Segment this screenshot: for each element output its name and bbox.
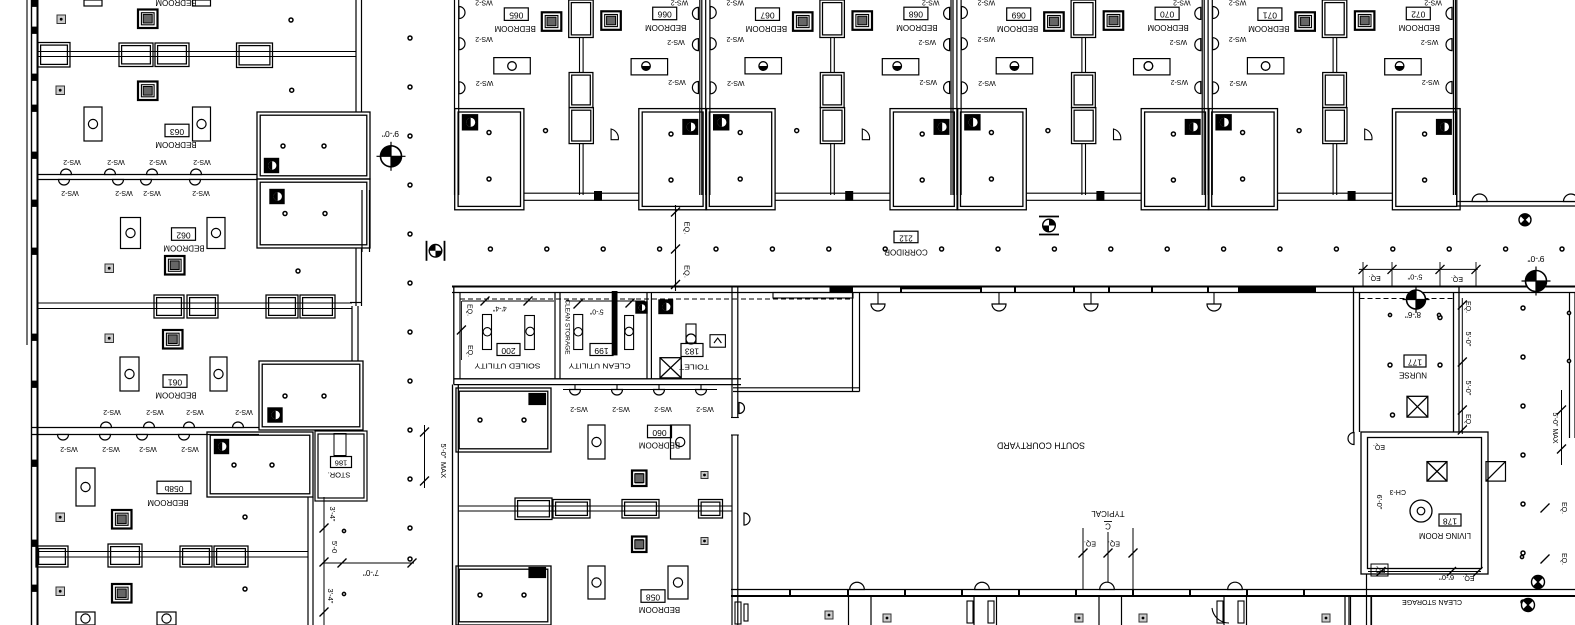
svg-text:CORRIDOR: CORRIDOR — [884, 247, 928, 256]
wall — [950, 0, 952, 195]
bedroom 058b — [112, 510, 132, 529]
closet — [119, 43, 153, 67]
svg-text:WS-2: WS-2 — [146, 408, 164, 415]
dresser 069 — [996, 58, 1033, 74]
svg-text:WS-2: WS-2 — [1424, 0, 1442, 6]
bathroom of 068 — [890, 109, 958, 210]
svg-text:WS-2: WS-2 — [671, 0, 689, 6]
room label 070 — [1155, 7, 1179, 20]
closet — [108, 544, 142, 567]
svg-text:WS-2: WS-2 — [60, 445, 78, 452]
svg-text:4'-4": 4'-4" — [492, 304, 506, 311]
svg-text:EQ.: EQ. — [1560, 502, 1567, 514]
svg-text:6'-0": 6'-0" — [1439, 573, 1454, 582]
symbol — [1519, 214, 1531, 226]
room label 072 — [1406, 7, 1430, 20]
closet row 060/058 — [458, 505, 732, 507]
svg-text:WS-2: WS-2 — [192, 189, 210, 196]
svg-text:EQ.: EQ. — [466, 345, 473, 357]
bathroom of 072 — [1392, 109, 1460, 210]
bathroom of 069 — [957, 109, 1026, 210]
svg-text:WS-2: WS-2 — [726, 35, 744, 42]
room label 066 — [653, 7, 677, 20]
compass target right — [1526, 271, 1547, 292]
bathroom of 071 — [1208, 109, 1277, 210]
bed 071 — [1295, 12, 1315, 31]
bathroom of 070 — [1141, 109, 1209, 210]
svg-text:WS-2: WS-2 — [193, 158, 211, 165]
svg-text:3'-4": 3'-4" — [326, 589, 335, 604]
dimension above nurse — [1359, 268, 1478, 270]
closet row wall between 058b and lower bedroom — [38, 551, 308, 553]
svg-text:BEDROOM: BEDROOM — [1398, 23, 1440, 32]
door frame — [1097, 192, 1104, 201]
room label 069 — [1007, 8, 1031, 21]
closet row wall between 062 and 061 — [38, 302, 352, 304]
svg-text:WS-2: WS-2 — [918, 38, 936, 45]
corridor label 212 — [894, 231, 918, 243]
svg-text:WS-2: WS-2 — [103, 408, 121, 415]
svg-text:BEDROOM: BEDROOM — [645, 23, 687, 32]
wall right of 072 — [1456, 0, 1458, 205]
svg-text:7'-0": 7'-0" — [363, 568, 379, 577]
door frame — [846, 192, 853, 201]
door — [1564, 194, 1575, 201]
room label 071 — [1258, 8, 1282, 21]
dark squares — [825, 611, 833, 619]
dresser 066 — [631, 59, 668, 75]
closet — [820, 108, 844, 144]
top row of bedroom unit pairs — [455, 0, 707, 210]
svg-text:EQ.: EQ. — [683, 222, 692, 235]
svg-text:BEDROOM: BEDROOM — [155, 390, 197, 399]
svg-text:060: 060 — [652, 428, 666, 438]
wall sconce WS-2 — [459, 7, 465, 19]
closet — [1072, 73, 1096, 108]
svg-text:SOILED UTILITY: SOILED UTILITY — [475, 362, 541, 371]
svg-text:WS-2: WS-2 — [476, 79, 494, 86]
svg-text:058: 058 — [646, 592, 660, 602]
wall between 199 and 183 — [646, 293, 648, 379]
svg-text:EQ.: EQ. — [1462, 574, 1474, 581]
bedroom (bottom, cut) — [112, 584, 132, 603]
dot — [795, 129, 799, 133]
wall — [1452, 0, 1454, 195]
dresser 065 — [494, 58, 531, 74]
wall — [956, 0, 958, 195]
door frame — [1348, 192, 1355, 201]
svg-text:TOILET: TOILET — [679, 362, 709, 371]
dimension 5-0 MAX right — [1561, 390, 1563, 465]
symbols bottom right — [1532, 576, 1545, 589]
svg-text:BEDROOM: BEDROOM — [147, 498, 189, 507]
svg-text:WS-2: WS-2 — [612, 405, 630, 412]
svg-text:068: 068 — [909, 10, 923, 20]
bathroom of 065 — [455, 109, 524, 210]
bathroom of 067 — [706, 109, 775, 210]
bathroom of 061 — [259, 361, 363, 430]
svg-text:WS-2: WS-2 — [1421, 38, 1439, 45]
svg-text:5'-0" MAX: 5'-0" MAX — [1551, 412, 1558, 443]
wall — [579, 144, 581, 195]
svg-text:EQ.: EQ. — [683, 265, 692, 278]
svg-text:WS-2: WS-2 — [1422, 78, 1440, 85]
bedroom (top, cut) — [138, 10, 158, 29]
wall sconce WS-2 — [1213, 7, 1219, 19]
wall — [454, 0, 456, 195]
closet — [180, 546, 212, 567]
left block right wall — [355, 0, 357, 112]
svg-text:6'-0": 6'-0" — [1375, 495, 1384, 510]
svg-text:WS-2: WS-2 — [570, 405, 588, 412]
wall — [1081, 144, 1083, 195]
nurse labels — [1404, 355, 1426, 367]
vestibule room — [852, 293, 854, 392]
dot — [1046, 129, 1050, 133]
corridor column dots — [432, 247, 436, 251]
svg-text:200: 200 — [501, 346, 515, 356]
svg-text:BEDROOM: BEDROOM — [155, 140, 197, 149]
living room labels — [1427, 462, 1447, 482]
svg-text:WS-2: WS-2 — [667, 38, 685, 45]
door frame — [595, 192, 602, 201]
door swing bottom right — [1212, 608, 1229, 623]
wall — [699, 0, 701, 195]
svg-text:WS-2: WS-2 — [654, 405, 672, 412]
svg-text:3'-4": 3'-4" — [328, 507, 337, 522]
svg-text:BEDROOM: BEDROOM — [896, 23, 938, 32]
svg-text:BEDROOM: BEDROOM — [1147, 23, 1189, 32]
svg-text:EQ.: EQ. — [1108, 540, 1120, 547]
doors at courtyard top — [877, 293, 879, 305]
closet — [187, 295, 218, 318]
svg-text:WS-2: WS-2 — [186, 408, 204, 415]
svg-text:WS-2: WS-2 — [475, 35, 493, 42]
svg-text:EQ.: EQ. — [1464, 301, 1471, 313]
bed 065 — [542, 12, 562, 31]
wall sconce WS-2 — [1195, 7, 1201, 19]
dot — [1297, 129, 1301, 133]
svg-text:WS-2: WS-2 — [696, 405, 714, 412]
compass target — [1407, 290, 1426, 309]
closet row wall — [38, 51, 356, 53]
closet — [1322, 0, 1347, 38]
thicker wall segment — [773, 293, 853, 299]
bathroom (upper pair top) — [257, 112, 370, 179]
door swing — [1365, 129, 1372, 140]
svg-text:WS-2: WS-2 — [181, 445, 199, 452]
wall corridor side — [775, 192, 890, 194]
wall top right of corridor — [1457, 201, 1575, 203]
svg-text:WS-2: WS-2 — [61, 189, 79, 196]
door posts — [735, 602, 741, 624]
svg-text:WS-2: WS-2 — [1229, 0, 1247, 6]
svg-text:CLEAN UTILITY: CLEAN UTILITY — [569, 362, 631, 371]
grid bubble — [1039, 217, 1059, 235]
svg-text:071: 071 — [1263, 10, 1277, 20]
utility block walls — [453, 287, 455, 385]
svg-text:199: 199 — [594, 346, 608, 356]
bedroom 062 — [165, 256, 185, 275]
wall — [830, 144, 832, 195]
svg-text:WS-2: WS-2 — [1229, 35, 1247, 42]
svg-text:5'-0": 5'-0" — [1464, 332, 1473, 347]
svg-text:5'-0: 5'-0 — [330, 541, 339, 553]
room label 067 — [756, 8, 780, 21]
svg-text:WS-2: WS-2 — [115, 189, 133, 196]
svg-text:BEDROOM: BEDROOM — [1248, 24, 1290, 33]
svg-text:BEDROOM: BEDROOM — [163, 243, 205, 252]
bathroom of 060 — [456, 388, 551, 452]
svg-text:BEDROOM: BEDROOM — [639, 605, 681, 614]
wall sconce WS-2 — [1213, 38, 1219, 50]
wall sconce WS-2 — [944, 82, 950, 94]
bathroom of 066 — [639, 109, 707, 210]
wall between 063 and 062 with sconces — [38, 174, 257, 176]
bathroom of 058 — [456, 566, 551, 625]
closet — [36, 546, 68, 567]
wall 058b block right — [307, 497, 309, 625]
svg-text:WS-2: WS-2 — [143, 189, 161, 196]
svg-text:178: 178 — [1443, 516, 1457, 526]
svg-text:EQ.: EQ. — [1369, 274, 1381, 281]
closet — [214, 546, 248, 567]
svg-text:BEDROOM: BEDROOM — [997, 24, 1039, 33]
svg-text:WS-2: WS-2 — [107, 158, 125, 165]
dresser circle variations — [759, 66, 768, 70]
svg-text:WS-2: WS-2 — [922, 0, 940, 6]
closet — [154, 295, 184, 318]
wall — [1332, 38, 1334, 73]
corridor 212 bottom wall — [452, 286, 1575, 288]
bed 070 — [1104, 11, 1124, 30]
closet — [237, 43, 273, 68]
svg-text:CLEAN STORAGE: CLEAN STORAGE — [1402, 598, 1462, 605]
svg-text:CH-3: CH-3 — [1390, 488, 1406, 495]
bed 069 — [1044, 12, 1064, 31]
dresser 072 — [1385, 59, 1422, 75]
toilet 183 — [659, 300, 673, 314]
bed 072 — [1355, 11, 1375, 30]
door swing — [1114, 129, 1121, 140]
svg-text:WS-2: WS-2 — [235, 408, 253, 415]
bedroom 063 — [138, 82, 158, 101]
wall between 061 and 058b with sconces — [32, 427, 260, 429]
svg-text:WS-2: WS-2 — [978, 0, 996, 6]
closet — [1071, 0, 1096, 38]
svg-text:061: 061 — [168, 377, 182, 387]
svg-text:EQ.: EQ. — [1373, 443, 1385, 450]
dresser 071 — [1247, 58, 1284, 74]
wall toilet right — [731, 287, 733, 625]
svg-text:065: 065 — [509, 10, 523, 20]
wall sconce WS-2 — [692, 7, 698, 19]
svg-text:WS-2: WS-2 — [1173, 0, 1191, 6]
wall sconce WS-2 — [1213, 82, 1219, 94]
bottom wing room dividers — [848, 596, 850, 625]
wall sconce WS-2 — [459, 38, 465, 50]
svg-text:WS-2: WS-2 — [978, 35, 996, 42]
closet — [1323, 73, 1347, 108]
svg-text:BEDROOM: BEDROOM — [745, 24, 787, 33]
dot — [544, 129, 548, 133]
wall — [1207, 0, 1209, 195]
wall — [1201, 0, 1203, 195]
wall sconce WS-2 — [459, 82, 465, 94]
dresser 067 — [745, 58, 782, 74]
svg-text:8'-6": 8'-6" — [1405, 310, 1421, 319]
living room 178 walls — [1361, 432, 1488, 574]
svg-text:062: 062 — [176, 230, 190, 240]
svg-text:EQ.: EQ. — [1464, 414, 1471, 426]
svg-text:WS-2: WS-2 — [139, 445, 157, 452]
svg-text:EQ.: EQ. — [1451, 275, 1463, 282]
svg-text:STOR.: STOR. — [328, 471, 351, 480]
closet — [1072, 108, 1096, 144]
nurse 177 walls — [1353, 287, 1355, 433]
wall — [579, 38, 581, 73]
wall jambs — [32, 0, 38, 7]
bed 068 — [853, 11, 873, 30]
wall corridor side — [1278, 192, 1393, 194]
closet — [820, 73, 844, 108]
wall — [830, 38, 832, 73]
bed 067 — [793, 12, 813, 31]
svg-text:212: 212 — [899, 233, 913, 242]
svg-text:177: 177 — [1408, 357, 1422, 367]
svg-text:063: 063 — [170, 127, 184, 137]
dimension EQ/EQ at unit door — [675, 205, 677, 291]
closet — [1323, 108, 1347, 144]
wall corridor side — [524, 192, 639, 194]
svg-text:NURSE: NURSE — [1399, 370, 1427, 379]
bottom dimension of living room — [1368, 571, 1481, 573]
wall sconce WS-2 — [692, 39, 698, 51]
wall sconce WS-2 — [1446, 39, 1452, 51]
left block outer wall — [26, 0, 28, 345]
clean utility 199 — [590, 344, 613, 356]
left vertical dot column — [408, 36, 412, 40]
closet — [300, 295, 335, 318]
wall sconce WS-2 — [710, 38, 716, 50]
svg-text:5'-0": 5'-0" — [589, 307, 603, 314]
svg-text:058b: 058b — [164, 484, 183, 494]
wall sconce WS-2 — [710, 82, 716, 94]
svg-text:072: 072 — [1411, 10, 1425, 20]
storage 186 — [315, 431, 367, 501]
door opening in east wall of 060 block — [731, 418, 739, 436]
svg-text:WS-2: WS-2 — [63, 158, 81, 165]
closet — [155, 43, 189, 67]
dresser 068 — [882, 59, 919, 75]
door — [1472, 194, 1487, 201]
svg-text:CLEAN STORAGE: CLEAN STORAGE — [563, 299, 570, 355]
svg-text:183: 183 — [685, 346, 699, 356]
svg-text:9'-0": 9'-0" — [1528, 254, 1545, 264]
svg-text:066: 066 — [657, 10, 671, 20]
soiled utility 200 — [497, 344, 520, 356]
wall sconce WS-2 — [961, 38, 967, 50]
svg-text:BEDROOM: BEDROOM — [639, 440, 681, 449]
svg-text:5'-0": 5'-0" — [1464, 381, 1473, 396]
dimension 5-0 MAX left of 060 block — [424, 425, 426, 488]
right edge partial wall — [1569, 293, 1571, 439]
svg-text:SOUTH COURTYARD: SOUTH COURTYARD — [997, 441, 1085, 451]
wall sconce WS-2 — [692, 82, 698, 94]
wall sconce WS-2 — [944, 7, 950, 19]
vertical dimension right of nurse — [1461, 298, 1463, 434]
svg-text:069: 069 — [1011, 10, 1025, 20]
bottom wing north wall — [731, 589, 1575, 591]
wall — [1081, 38, 1083, 73]
dimension line horizontal 7-0 — [324, 562, 414, 564]
wall sconce WS-2 — [961, 7, 967, 19]
wall — [705, 0, 707, 195]
svg-text:9'-0": 9'-0" — [382, 129, 399, 139]
grid bubble — [429, 245, 442, 258]
svg-text:WS-2: WS-2 — [102, 445, 120, 452]
door swing — [862, 129, 869, 140]
svg-text:BEDROOM: BEDROOM — [155, 0, 197, 7]
door swings right of block — [739, 403, 745, 414]
bathroom (upper pair bottom) — [257, 179, 370, 248]
svg-text:WS-2: WS-2 — [668, 78, 686, 85]
svg-text:LIVING ROOM: LIVING ROOM — [1419, 531, 1471, 540]
wall left block bottom jog — [350, 302, 361, 304]
svg-text:WS-2: WS-2 — [475, 0, 493, 6]
wall corridor side — [1026, 192, 1141, 194]
room label 068 — [904, 7, 928, 20]
bathroom of 058b — [207, 432, 313, 497]
closet — [38, 43, 70, 68]
right dot column — [1521, 306, 1525, 310]
sconces below utility — [563, 389, 717, 391]
svg-text:BEDROOM: BEDROOM — [494, 24, 536, 33]
closet — [266, 295, 298, 318]
wall between 200 and 199 — [554, 293, 556, 379]
wall mullions — [789, 590, 791, 597]
dresser 070 — [1134, 59, 1171, 75]
bedroom 058 — [632, 537, 647, 553]
svg-text:WS-2: WS-2 — [149, 158, 167, 165]
svg-text:TYPICAL: TYPICAL — [1091, 509, 1125, 518]
closet — [569, 0, 594, 38]
wall mullions — [851, 287, 853, 293]
svg-text:186: 186 — [335, 459, 348, 468]
dimension line vertical 3-4/5-0/3-4 — [323, 497, 325, 625]
svg-text:070: 070 — [1160, 10, 1174, 20]
wall sconce WS-2 — [1195, 39, 1201, 51]
svg-text:MAX: MAX — [439, 462, 448, 478]
wall sconce WS-2 — [1446, 7, 1452, 19]
svg-text:WS-2: WS-2 — [727, 79, 745, 86]
svg-text:EQ.: EQ. — [466, 304, 473, 316]
wall sconce WS-2 — [944, 39, 950, 51]
wall — [1332, 144, 1334, 195]
wall sconce WS-2 — [1446, 82, 1452, 94]
svg-text:WS-2: WS-2 — [978, 79, 996, 86]
closet — [569, 108, 593, 144]
wall sconce WS-2 — [710, 7, 716, 19]
room label 065 — [504, 8, 528, 21]
svg-text:C: C — [1105, 521, 1111, 530]
svg-text:067: 067 — [760, 10, 774, 20]
doors on courtyard south wall — [850, 582, 865, 589]
svg-text:WS-2: WS-2 — [919, 78, 937, 85]
svg-text:5'-0": 5'-0" — [439, 444, 448, 459]
svg-text:WS-2: WS-2 — [1229, 79, 1247, 86]
bedroom 060 — [588, 425, 605, 459]
